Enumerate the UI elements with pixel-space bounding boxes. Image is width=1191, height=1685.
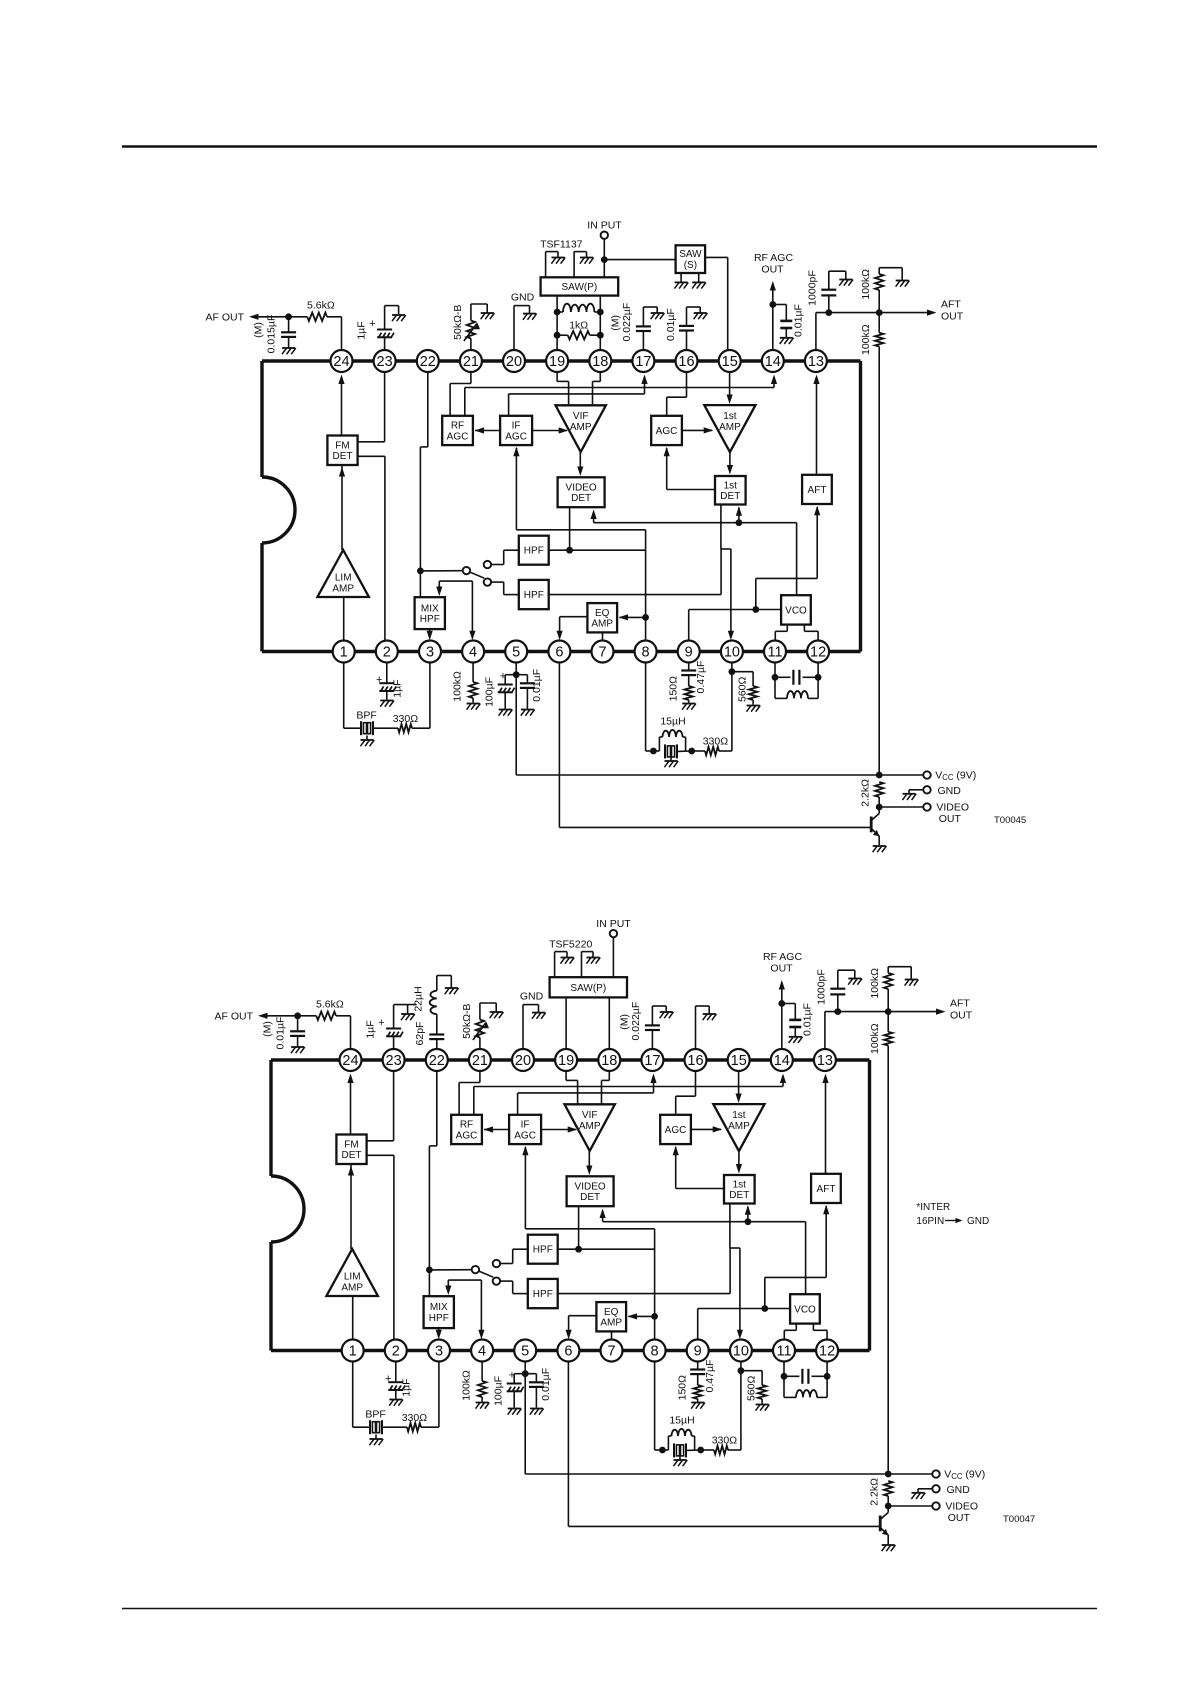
svg-text:18: 18 [592,354,608,370]
svg-text:19: 19 [558,1053,574,1069]
svg-text:+: + [500,671,506,683]
svg-text:50kΩ-B: 50kΩ-B [461,1004,473,1039]
svg-text:VCO: VCO [794,1304,816,1315]
svg-text:9: 9 [685,645,693,661]
svg-text:21: 21 [472,1053,488,1069]
svg-text:AFT: AFT [817,1184,836,1195]
svg-text:OUT: OUT [941,311,964,323]
svg-text:(M): (M) [262,1021,274,1037]
svg-text:8: 8 [651,1344,659,1360]
svg-text:GND: GND [938,785,962,797]
svg-text:13: 13 [808,354,824,370]
svg-text:560Ω: 560Ω [736,676,748,702]
svg-text:AFT: AFT [808,485,827,496]
svg-text:GND: GND [947,1484,971,1496]
svg-text:GND: GND [520,991,544,1003]
svg-text:*INTER: *INTER [916,1202,950,1213]
svg-text:21: 21 [463,354,479,370]
svg-text:RF: RF [451,421,464,432]
svg-text:DET: DET [571,493,591,504]
svg-text:1st: 1st [733,1179,747,1190]
svg-text:1µF: 1µF [365,1020,377,1038]
svg-text:1st: 1st [724,480,738,491]
svg-text:10: 10 [733,1344,749,1360]
svg-text:11: 11 [776,1344,791,1360]
svg-text:100kΩ: 100kΩ [869,968,881,999]
svg-text:(M): (M) [610,315,622,331]
svg-text:OUT: OUT [948,1512,971,1524]
svg-text:VIF: VIF [582,1110,598,1121]
svg-text:1µF: 1µF [400,1378,412,1396]
svg-text:100µF: 100µF [492,1376,504,1406]
svg-text:(M): (M) [619,1014,631,1030]
svg-text:2: 2 [383,645,391,661]
svg-text:GND: GND [967,1216,989,1227]
svg-text:VIDEO: VIDEO [936,802,969,814]
svg-text:8: 8 [642,645,650,661]
svg-text:0.01µF: 0.01µF [531,669,543,702]
svg-text:100µF: 100µF [483,677,495,707]
svg-text:AGC: AGC [514,1130,536,1141]
svg-text:0.022µF: 0.022µF [630,1002,642,1041]
svg-text:BPF: BPF [365,1409,385,1421]
svg-text:22µH: 22µH [413,986,425,1011]
svg-text:SAW: SAW [679,249,702,260]
svg-text:50kΩ-B: 50kΩ-B [452,305,464,340]
svg-text:11: 11 [767,645,782,661]
svg-text:VCC (9V): VCC (9V) [935,770,976,783]
svg-text:0.022µF: 0.022µF [621,303,633,342]
svg-text:15µH: 15µH [669,1415,694,1427]
svg-text:DET: DET [333,451,353,462]
svg-text:19: 19 [549,354,565,370]
svg-text:2.2kΩ: 2.2kΩ [869,1478,881,1506]
svg-text:DET: DET [729,1190,749,1201]
svg-text:330Ω: 330Ω [712,1435,738,1447]
svg-text:560Ω: 560Ω [745,1375,757,1401]
svg-text:100kΩ: 100kΩ [461,1370,473,1401]
svg-text:4: 4 [478,1344,486,1360]
svg-text:OUT: OUT [939,813,962,825]
svg-text:150Ω: 150Ω [667,676,679,702]
svg-text:24: 24 [333,354,349,370]
svg-text:+: + [509,1370,515,1382]
svg-text:0.47µF: 0.47µF [704,1360,716,1393]
svg-text:AMP: AMP [719,422,741,433]
svg-text:VCC (9V): VCC (9V) [944,1469,985,1482]
svg-text:1: 1 [349,1344,357,1360]
svg-text:HPF: HPF [524,546,544,557]
svg-text:IN PUT: IN PUT [587,220,622,232]
svg-text:AMP: AMP [591,619,613,630]
svg-text:AMP: AMP [728,1121,750,1132]
svg-text:OUT: OUT [761,264,784,276]
svg-text:330Ω: 330Ω [402,1412,428,1424]
svg-text:0.01µF: 0.01µF [802,1003,814,1036]
svg-text:VIDEO: VIDEO [575,1181,606,1192]
svg-text:SAW(P): SAW(P) [562,282,598,293]
svg-text:3: 3 [426,645,434,661]
svg-text:VIF: VIF [573,411,589,422]
svg-text:330Ω: 330Ω [393,713,419,725]
svg-text:5.6kΩ: 5.6kΩ [307,300,335,312]
svg-text:IF: IF [521,1120,530,1131]
svg-text:IF: IF [512,421,521,432]
svg-text:24: 24 [342,1053,358,1069]
svg-text:T00045: T00045 [994,815,1026,826]
svg-text:AGC: AGC [505,431,527,442]
svg-text:SAW(P): SAW(P) [570,983,606,994]
svg-text:0.01µF: 0.01µF [665,308,677,341]
svg-text:T00047: T00047 [1003,1514,1035,1525]
svg-text:6: 6 [555,645,563,661]
svg-text:17: 17 [644,1053,660,1069]
svg-text:DET: DET [580,1192,600,1203]
svg-text:AMP: AMP [570,422,592,433]
svg-text:12: 12 [810,645,826,661]
svg-text:15µH: 15µH [660,716,685,728]
svg-text:20: 20 [506,354,522,370]
svg-text:2: 2 [392,1344,400,1360]
svg-text:TSF5220: TSF5220 [549,939,592,951]
svg-text:AFT: AFT [950,998,970,1010]
svg-text:22: 22 [420,354,436,370]
svg-text:MIX: MIX [430,1302,448,1313]
svg-text:0.01µF: 0.01µF [540,1368,552,1401]
svg-text:AMP: AMP [341,1283,363,1294]
svg-text:16: 16 [687,1053,703,1069]
svg-text:HPF: HPF [420,614,440,625]
svg-text:100kΩ: 100kΩ [869,1023,881,1054]
svg-text:HPF: HPF [533,1245,553,1256]
svg-text:TSF1137: TSF1137 [540,239,583,251]
svg-text:OUT: OUT [950,1010,973,1022]
svg-text:VIDEO: VIDEO [945,1501,978,1513]
svg-text:150Ω: 150Ω [676,1375,688,1401]
svg-text:HPF: HPF [524,590,544,601]
svg-text:RF AGC: RF AGC [763,951,803,963]
svg-text:22: 22 [429,1053,445,1069]
svg-text:AMP: AMP [600,1318,622,1329]
svg-text:FM: FM [344,1139,358,1150]
svg-text:12: 12 [819,1344,835,1360]
svg-text:IN PUT: IN PUT [596,918,631,930]
svg-text:0.015µF: 0.015µF [266,315,278,354]
svg-text:+: + [385,1373,391,1385]
svg-text:LIM: LIM [335,573,352,584]
svg-text:1000pF: 1000pF [806,270,818,306]
svg-text:7: 7 [598,645,606,661]
svg-text:AMP: AMP [579,1121,601,1132]
svg-text:DET: DET [720,491,740,502]
svg-text:5.6kΩ: 5.6kΩ [316,999,344,1011]
svg-text:AGC: AGC [447,431,469,442]
svg-text:5: 5 [512,645,520,661]
svg-text:15: 15 [731,1053,747,1069]
svg-text:100kΩ: 100kΩ [860,269,872,300]
svg-text:(M): (M) [253,322,265,338]
svg-text:9: 9 [694,1344,702,1360]
svg-text:AF OUT: AF OUT [206,312,245,324]
svg-text:15: 15 [722,354,738,370]
svg-text:10: 10 [724,645,740,661]
svg-text:14: 14 [765,354,781,370]
svg-text:+: + [378,1017,384,1029]
svg-text:0.47µF: 0.47µF [695,661,707,694]
svg-text:1000pF: 1000pF [815,969,827,1005]
svg-text:16: 16 [678,354,694,370]
svg-text:VCO: VCO [785,605,807,616]
svg-text:4: 4 [469,645,477,661]
svg-text:EQ: EQ [604,1307,619,1318]
svg-text:1µF: 1µF [391,679,403,697]
svg-text:AGC: AGC [456,1130,478,1141]
svg-text:FM: FM [335,440,349,451]
svg-text:AGC: AGC [665,1125,687,1136]
svg-text:VIDEO: VIDEO [566,482,597,493]
svg-text:0.01µF: 0.01µF [275,1017,287,1050]
svg-text:0.01µF: 0.01µF [793,304,805,337]
svg-text:AFT: AFT [941,299,961,311]
svg-text:1st: 1st [732,1110,746,1121]
svg-text:LIM: LIM [344,1272,361,1283]
svg-text:AMP: AMP [332,584,354,595]
svg-text:17: 17 [635,354,651,370]
svg-text:330Ω: 330Ω [703,736,729,748]
svg-text:14: 14 [774,1053,790,1069]
svg-text:1: 1 [340,645,348,661]
svg-text:7: 7 [607,1344,615,1360]
svg-text:+: + [376,674,382,686]
svg-text:GND: GND [511,292,535,304]
svg-text:DET: DET [342,1150,362,1161]
svg-text:(S): (S) [684,260,697,271]
svg-text:20: 20 [515,1053,531,1069]
svg-text:AF OUT: AF OUT [215,1011,254,1023]
svg-text:13: 13 [817,1053,833,1069]
svg-text:RF AGC: RF AGC [754,252,794,264]
svg-text:6: 6 [564,1344,572,1360]
svg-text:100kΩ: 100kΩ [452,671,464,702]
svg-text:16PIN: 16PIN [916,1216,944,1227]
svg-text:3: 3 [435,1344,443,1360]
svg-text:5: 5 [521,1344,529,1360]
svg-text:1µF: 1µF [356,321,368,339]
svg-text:AGC: AGC [656,426,678,437]
svg-text:HPF: HPF [429,1313,449,1324]
svg-text:+: + [369,318,375,330]
svg-text:62pF: 62pF [414,1022,426,1046]
svg-text:RF: RF [460,1120,473,1131]
svg-text:18: 18 [601,1053,617,1069]
svg-text:EQ: EQ [595,608,610,619]
svg-text:23: 23 [377,354,393,370]
svg-text:OUT: OUT [770,963,793,975]
svg-text:100kΩ: 100kΩ [860,324,872,355]
svg-text:1kΩ: 1kΩ [569,320,588,332]
svg-text:HPF: HPF [533,1289,553,1300]
svg-text:BPF: BPF [356,710,376,722]
svg-text:23: 23 [386,1053,402,1069]
svg-text:MIX: MIX [421,603,439,614]
svg-text:1st: 1st [723,411,737,422]
svg-text:2.2kΩ: 2.2kΩ [860,779,872,807]
